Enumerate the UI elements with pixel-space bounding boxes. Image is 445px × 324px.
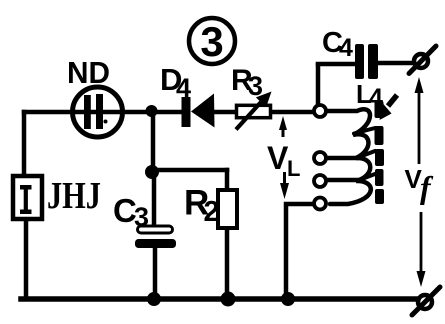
svg-text:ND: ND — [67, 55, 110, 90]
svg-text:4: 4 — [176, 73, 191, 103]
svg-text:V: V — [267, 140, 289, 176]
svg-text:3: 3 — [134, 202, 149, 232]
svg-text:4: 4 — [339, 34, 353, 62]
svg-text:3: 3 — [248, 71, 263, 101]
svg-text:4: 4 — [369, 84, 383, 112]
svg-text:L: L — [287, 156, 300, 181]
svg-text:3: 3 — [200, 18, 223, 65]
svg-text:JHJ: JHJ — [47, 175, 101, 217]
svg-text:2: 2 — [204, 196, 220, 228]
